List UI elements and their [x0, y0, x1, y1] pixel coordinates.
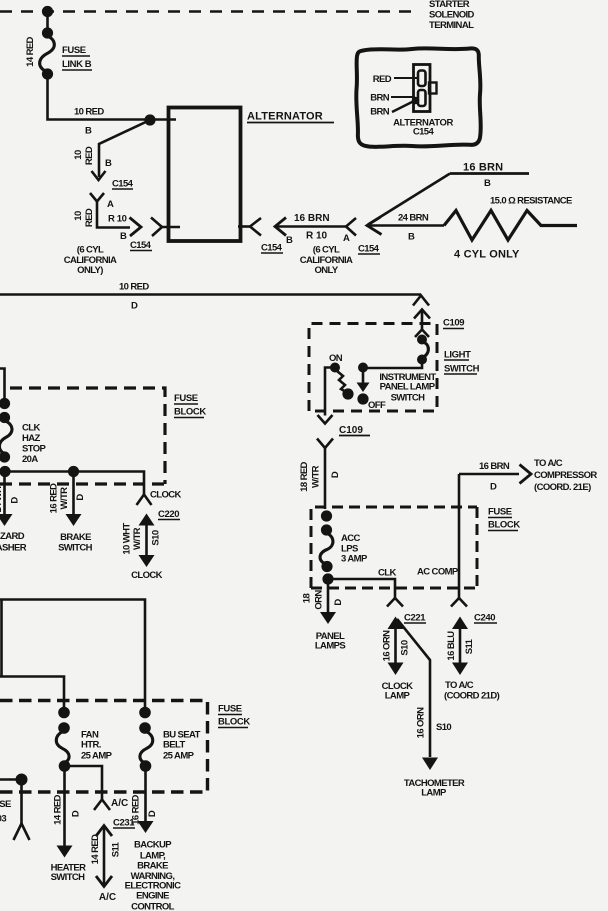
svg-text:S10: S10 [151, 530, 162, 545]
wire: 10 RED ignition feed bus [0, 293, 421, 296]
node: fuse output junction [0, 466, 11, 477]
svg-text:16 RED: 16 RED [49, 483, 60, 513]
svg-text:RED: RED [84, 208, 95, 227]
svg-text:BRAKE: BRAKE [137, 861, 168, 872]
svg-text:ASHER: ASHER [0, 543, 27, 554]
svg-text:3 AMP: 3 AMP [341, 554, 368, 565]
svg-text:14 RED: 14 RED [90, 834, 101, 864]
svg-text:TERMINAL: TERMINAL [429, 20, 474, 31]
svg-text:TO A/C: TO A/C [445, 680, 474, 691]
svg-text:LAMP: LAMP [385, 691, 411, 702]
svg-text:W/TR: W/TR [59, 487, 70, 510]
wire: R 10 jumper [97, 202, 130, 228]
svg-text:BELT: BELT [163, 740, 185, 751]
svg-text:FUSE: FUSE [62, 45, 86, 56]
fuse link B symbol [42, 27, 53, 38]
svg-text:S11: S11 [111, 841, 122, 857]
svg-text:16 RED: 16 RED [131, 794, 142, 824]
wire: heater switch feed [63, 766, 66, 846]
svg-text:RED: RED [373, 74, 392, 85]
wire: 10 RED feed to BU SEAT BELT fuse [0, 600, 145, 713]
svg-text:STOP: STOP [22, 444, 47, 455]
svg-text:D: D [490, 482, 497, 493]
svg-text:ONLY: ONLY [314, 265, 338, 276]
svg-text:S11: S11 [464, 638, 475, 654]
wire [46, 12, 49, 34]
splice S10 double arrow to clock [145, 519, 148, 561]
connector legs at fuse block exit (A/C) [94, 800, 110, 811]
svg-text:S10: S10 [436, 722, 451, 733]
connector C154 pictorial body [414, 65, 431, 112]
resistor: 15.0 ohm resistance [444, 211, 577, 241]
wire: fused output bus [0, 472, 144, 496]
svg-text:CLOCK: CLOCK [131, 570, 163, 581]
alternator box [169, 108, 241, 242]
wire [363, 360, 422, 369]
svg-text:D: D [75, 494, 86, 501]
splice S10 double arrow to clock lamp [394, 622, 397, 664]
connector C109 female half (arrow up into light switch) [414, 310, 430, 319]
wire: 16 BRN R 10 [275, 225, 346, 228]
svg-text:203: 203 [0, 814, 6, 825]
svg-text:18 RED: 18 RED [299, 461, 310, 491]
wire: 18 RED W/TR down to fuse block [324, 448, 327, 509]
connector legs at fuse block exit (CLK) [387, 598, 403, 607]
fuse: FAN HTR 25 AMP [58, 707, 70, 719]
svg-text:16 ORN: 16 ORN [416, 707, 427, 738]
svg-text:(COORD 21D): (COORD 21D) [444, 691, 500, 702]
svg-text:C221: C221 [404, 613, 426, 624]
svg-text:C109: C109 [339, 425, 363, 436]
svg-text:R 10: R 10 [306, 231, 328, 242]
svg-text:B: B [286, 235, 293, 246]
connector legs at fuse block exit (CLOCK) [137, 495, 152, 506]
svg-text:LAMPS: LAMPS [315, 641, 346, 652]
svg-text:CLOCK: CLOCK [150, 490, 182, 501]
svg-text:BLOCK: BLOCK [174, 407, 206, 418]
connector C109 male half (open arrow down) [318, 415, 333, 424]
svg-text:S10: S10 [400, 640, 411, 655]
wire: light switch output down [325, 368, 335, 416]
connector legs at box entry [415, 330, 429, 338]
svg-text:USE: USE [0, 799, 11, 810]
svg-text:TO A/C: TO A/C [534, 458, 563, 469]
wire: feed into fuse block 1 from page edge [0, 369, 5, 402]
fuse: ACC LPS 3 AMP [321, 510, 332, 521]
svg-text:SWITCH: SWITCH [58, 543, 93, 554]
svg-text:C109: C109 [443, 318, 464, 329]
wire: backup lamp feed [144, 766, 147, 821]
connector C154 female half (right side) [250, 218, 261, 236]
svg-text:SOLENOID: SOLENOID [429, 10, 475, 21]
wire: AC COMP feed [458, 474, 461, 598]
svg-text:16 BRN: 16 BRN [294, 213, 330, 224]
wire: S11 double arrow to A/C [459, 622, 462, 664]
svg-text:STARTER: STARTER [429, 0, 470, 10]
svg-text:10 RED: 10 RED [74, 107, 104, 118]
svg-text:LINK B: LINK B [62, 59, 92, 70]
svg-text:CLK: CLK [378, 568, 396, 579]
svg-text:B: B [105, 158, 112, 169]
inset: alternator connector C154 pictorial box [356, 48, 481, 146]
wire: dashed hot feed bus from starter solenoid terminal [0, 10, 418, 13]
svg-text:B: B [120, 231, 127, 242]
node: splice on solenoid feed bus [42, 6, 53, 17]
node: junction on 10 RED [144, 114, 155, 125]
connector legs (cut-off branch) [14, 824, 30, 841]
svg-text:16 ORN: 16 ORN [382, 630, 393, 661]
svg-text:10 WHT: 10 WHT [122, 523, 133, 555]
svg-text:COMPRESSOR: COMPRESSOR [534, 470, 597, 481]
svg-text:BRAKE: BRAKE [60, 532, 91, 543]
connector C154 male half (arrow down) [92, 171, 106, 180]
svg-text:SWITCH: SWITCH [51, 872, 86, 883]
svg-text:B: B [408, 232, 415, 243]
svg-text:LAMP: LAMP [421, 788, 447, 799]
svg-text:A/C: A/C [111, 798, 128, 809]
svg-text:SWITCH: SWITCH [391, 393, 426, 404]
svg-text:R 10: R 10 [108, 214, 127, 225]
svg-text:(COORD. 21E): (COORD. 21E) [534, 482, 591, 493]
svg-text:C240: C240 [474, 613, 495, 624]
svg-text:B: B [484, 178, 491, 189]
svg-text:ONLY): ONLY) [77, 265, 103, 276]
svg-text:10 RED: 10 RED [119, 282, 149, 293]
svg-text:25 AMP: 25 AMP [81, 751, 113, 762]
connector C109 female half (V) [317, 439, 333, 449]
fuse block dashed box (bottom) [0, 701, 208, 793]
svg-text:FUSE: FUSE [218, 704, 242, 715]
connector C154 female half [90, 193, 104, 202]
node: panel lamp feed junction [322, 573, 333, 584]
wire: to CLK output [328, 579, 395, 598]
svg-text:ZARD: ZARD [0, 531, 25, 542]
wire: 16 BRN diagonal [368, 174, 450, 225]
fuse block dashed box (middle) [311, 507, 477, 588]
svg-text:ACC: ACC [341, 533, 361, 544]
wire: 16 BRN horizontal [450, 172, 529, 175]
svg-text:LIGHT: LIGHT [444, 350, 471, 361]
svg-text:PANEL LAMP: PANEL LAMP [380, 382, 436, 393]
svg-text:14 WHT: 14 WHT [0, 481, 4, 513]
svg-text:14 RED: 14 RED [25, 36, 36, 66]
svg-text:CONTROL: CONTROL [131, 902, 175, 911]
connector C154 male half (arrow left) [275, 218, 286, 236]
connector C154 male half (arrow right) [130, 218, 142, 237]
svg-text:ALTERNATOR: ALTERNATOR [247, 111, 323, 123]
svg-text:14 RED: 14 RED [53, 794, 64, 824]
svg-text:OFF: OFF [368, 400, 386, 411]
svg-text:D: D [333, 599, 344, 606]
wire: panel lamps feed down [327, 579, 330, 612]
svg-text:D: D [71, 810, 82, 817]
svg-text:24 BRN: 24 BRN [398, 213, 429, 224]
connector C154 male half (arrow left) [367, 217, 382, 235]
svg-text:(6 CYL: (6 CYL [77, 245, 104, 256]
node: brake switch junction [68, 466, 79, 477]
svg-text:25 AMP: 25 AMP [163, 751, 195, 762]
svg-text:C154: C154 [358, 244, 380, 255]
svg-text:W/TR: W/TR [132, 527, 143, 550]
wire [0, 778, 22, 781]
svg-text:A: A [343, 233, 350, 244]
svg-text:BACKUP: BACKUP [134, 840, 172, 851]
wire: S10 splice to tachometer lamp [397, 619, 430, 757]
svg-text:FUSE: FUSE [488, 507, 512, 518]
svg-text:HTR.: HTR. [81, 740, 101, 751]
wire stub from alternator right [238, 225, 250, 228]
wire: branch to C154 [99, 120, 150, 177]
wire: feed to FAN HTR fuse [0, 677, 64, 713]
svg-text:10: 10 [73, 211, 84, 221]
svg-text:C154: C154 [413, 127, 435, 138]
svg-text:C154: C154 [261, 243, 283, 254]
wire: hazard flasher feed [3, 472, 6, 515]
svg-text:20A: 20A [22, 454, 38, 465]
svg-text:B: B [85, 126, 92, 137]
svg-text:10: 10 [73, 150, 84, 160]
fuse: BU SEAT BELT 25 AMP [139, 707, 151, 719]
svg-text:BLOCK: BLOCK [488, 520, 520, 531]
svg-text:A/C: A/C [99, 892, 116, 903]
svg-text:D: D [147, 810, 158, 817]
light switch dashed box [309, 324, 437, 412]
svg-text:CLK: CLK [22, 423, 40, 434]
connector C109 male half (open V up) [413, 296, 429, 306]
svg-text:4 CYL ONLY: 4 CYL ONLY [454, 249, 520, 261]
connector C154 female half at alternator [151, 218, 162, 237]
svg-text:16 BRN: 16 BRN [479, 461, 510, 472]
svg-text:AC COMP: AC COMP [417, 567, 459, 578]
splice S11 double arrow to A/C [103, 826, 106, 886]
svg-text:ENGINE: ENGINE [136, 891, 169, 902]
svg-text:ON: ON [329, 353, 343, 364]
svg-text:W/TR: W/TR [311, 465, 322, 488]
connector: open arrow right [520, 465, 532, 484]
wire: 24 BRN [368, 224, 444, 227]
svg-text:D: D [10, 497, 21, 504]
svg-text:D: D [330, 471, 341, 478]
svg-text:D: D [131, 301, 138, 312]
svg-text:RED: RED [84, 146, 95, 165]
svg-text:15.0 Ω RESISTANCE: 15.0 Ω RESISTANCE [490, 196, 572, 207]
wire: brake switch feed [72, 472, 75, 515]
wire: 16 BRN to A/C compressor [459, 473, 519, 476]
wire: A/C branch [65, 766, 103, 800]
svg-text:16 BLU: 16 BLU [446, 631, 457, 661]
svg-text:C220: C220 [158, 509, 179, 520]
rheostat wiper zigzag [337, 371, 346, 392]
svg-text:SWITCH: SWITCH [444, 364, 480, 375]
wire: page-edge riser [0, 600, 3, 677]
node: junction at page edge [16, 774, 28, 786]
wire: 10 RED to alternator [48, 74, 177, 120]
svg-text:(6 CYL: (6 CYL [313, 245, 340, 256]
connector legs at fuse block exit (AC COMP) [451, 598, 467, 607]
circuit breaker inside light switch [417, 335, 427, 345]
svg-text:HAZ: HAZ [22, 433, 41, 444]
svg-text:BRN: BRN [370, 93, 390, 104]
svg-text:ORN: ORN [314, 590, 325, 610]
svg-text:16 BRN: 16 BRN [463, 162, 503, 174]
fuse block dashed box (left) [10, 388, 165, 484]
fuse: CLK HAZ STOP 20A [0, 398, 10, 409]
svg-text:FUSE: FUSE [174, 393, 198, 404]
svg-text:C154: C154 [130, 240, 152, 251]
switch pole OFF with arrow [358, 363, 368, 373]
svg-text:BLOCK: BLOCK [218, 717, 250, 728]
svg-text:BRN: BRN [370, 107, 390, 118]
svg-text:A: A [107, 199, 114, 210]
svg-text:18: 18 [302, 594, 313, 604]
svg-text:C154: C154 [112, 179, 134, 190]
connector C154 female half (engine harness) [346, 218, 356, 236]
